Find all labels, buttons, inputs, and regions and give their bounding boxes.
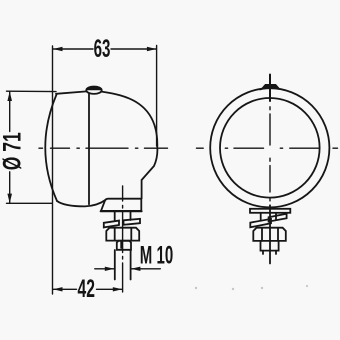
wire M10 leader line right xyxy=(131,268,160,270)
top knob (front view) xyxy=(262,85,279,89)
lamp dome outline (side view) xyxy=(102,92,158,199)
hex nut (front view) xyxy=(253,228,285,241)
collar tick (side view) xyxy=(120,242,122,248)
threaded stud (side view) xyxy=(115,250,131,280)
svg-text:42: 42 xyxy=(78,275,95,303)
wire dimension extension line top of diameter 71 xyxy=(7,90,57,92)
top knob dark cap (side view) xyxy=(86,87,101,91)
tilted washer left wing (front view) xyxy=(250,219,271,227)
node arrowhead right of 63 xyxy=(147,47,157,51)
wire dimension line 42 xyxy=(53,288,122,290)
node arrowhead M10 right pointing left xyxy=(131,267,141,271)
inner lens circle (front view) xyxy=(220,98,320,198)
wire dimension extension line bottom of diameter 71 xyxy=(7,202,53,204)
thread collar (front view) xyxy=(261,241,279,251)
lamp seam line (side view) xyxy=(88,94,90,205)
horizontal centerline (front view) xyxy=(197,147,338,149)
hex nut facet lines (side view) xyxy=(115,228,132,241)
node arrowhead top of 71 xyxy=(7,91,12,101)
toothed washer right wing (side view) xyxy=(124,219,141,225)
stud axis centerline (side view) xyxy=(122,186,124,292)
toothed washer left wing (side view) xyxy=(104,221,119,228)
foot bottom line (side view) xyxy=(101,210,142,212)
top knob ellipse (side view) xyxy=(86,87,101,94)
lamp lens front arc (side view) xyxy=(45,95,57,202)
wire dimension extension line right of 63 xyxy=(156,46,158,147)
node arrowhead bottom of 71 xyxy=(7,194,12,204)
tilted washer right wing (front view) xyxy=(269,214,287,222)
svg-text:M 10: M 10 xyxy=(140,242,173,270)
wire dimension line diameter 71 xyxy=(9,92,11,203)
svg-text:63: 63 xyxy=(94,35,111,63)
hex nut (side view) xyxy=(106,228,139,241)
collar bottom stub (front view) xyxy=(263,251,276,254)
outer ring circle (front view) xyxy=(210,88,329,207)
hex nut facet lines (front view) xyxy=(262,228,278,241)
mounting foot bar (front view) xyxy=(250,209,290,213)
mounting foot (side view) xyxy=(101,199,141,211)
lamp top edge (side view) xyxy=(56,91,87,93)
faint scan dots xyxy=(195,285,308,290)
wire dimension line 63 xyxy=(53,48,156,50)
node arrowhead right of 42 xyxy=(113,287,123,291)
node arrowhead left of 42 xyxy=(53,287,63,291)
wire M10 leader line left xyxy=(95,268,115,270)
shaft below foot (side view) xyxy=(115,212,131,220)
thread collar (side view) xyxy=(117,241,131,250)
node arrowhead M10 left pointing right xyxy=(105,267,115,271)
shaft below foot (front view) xyxy=(261,213,276,220)
lamp bottom edge (side view) xyxy=(57,200,106,207)
horizontal centerline (side view) xyxy=(39,147,168,149)
svg-text:Ø 71: Ø 71 xyxy=(0,132,26,170)
node arrowhead left of 63 xyxy=(53,47,63,51)
wire dimension extension line left (front face plane, shared by 63 and 42) xyxy=(52,46,54,294)
vertical centerline (front view) xyxy=(269,75,271,102)
